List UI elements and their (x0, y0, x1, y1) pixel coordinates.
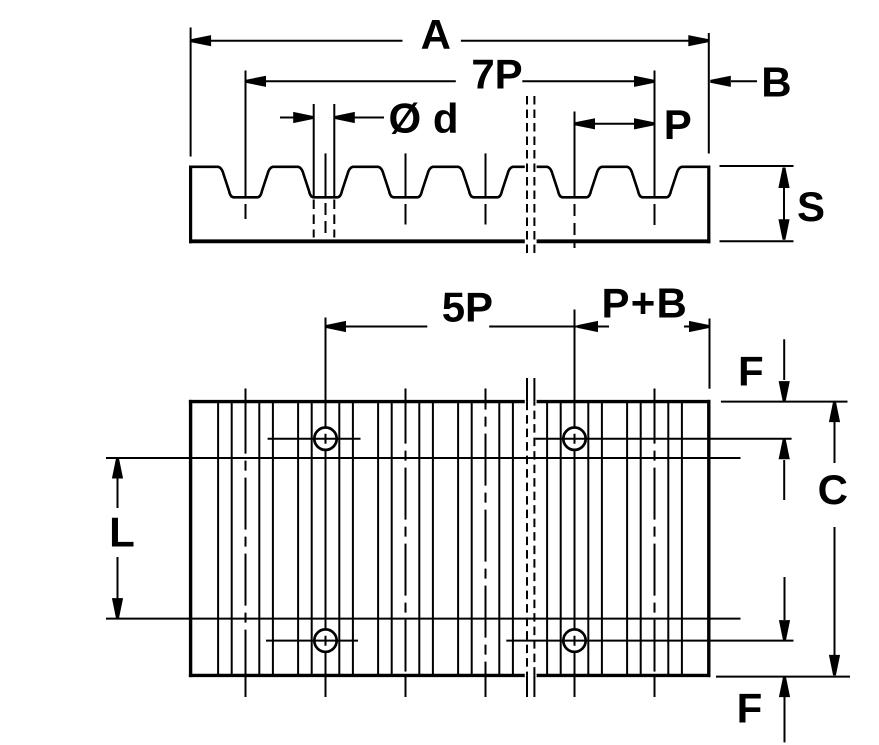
groove lines of tooth 6 (plan) (626, 402, 628, 676)
dimension Od arrows (280, 117, 295, 119)
groove lines of tooth 4 (plan) (457, 402, 459, 676)
dimension A extension line left (190, 28, 192, 157)
tooth profile top outline (right of break) (537, 167, 709, 198)
hole circle top-right (563, 428, 585, 450)
tooth centre line valley 1 / 7P left extension (245, 71, 247, 197)
hole circle bottom-right (563, 629, 585, 651)
dimension S line + arrows (783, 171, 785, 237)
plate bottom edge extension (right) (716, 676, 850, 678)
groove lines of tooth 1 (plan) (217, 402, 219, 676)
hole axis line top-left (268, 438, 361, 440)
tooth centre line valley 4 (485, 153, 487, 196)
plate left edge (profile) (189, 166, 192, 244)
hole circle bottom-left (314, 629, 336, 651)
tooth centre line valley 5 / P left extension (574, 112, 576, 197)
dimension C line + arrows (829, 402, 840, 423)
centre line tooth 4 (plan, dash-dot) (485, 389, 487, 402)
centre line tooth 2 (plan, dash-dot) (325, 318, 327, 402)
groove lines of tooth 2 (plan) (297, 402, 299, 676)
dimension S extension bottom (720, 240, 794, 242)
plate right edge (profile) (707, 166, 710, 244)
dimension P line + arrows (575, 123, 655, 125)
svg-text:P: P (664, 101, 692, 148)
svg-text:5P: 5P (442, 284, 493, 331)
dimension B arrow (731, 80, 757, 82)
svg-text:P+B: P+B (602, 280, 688, 327)
plan view plate left edge (189, 400, 192, 677)
groove lines of tooth 3 (plan) (377, 402, 379, 676)
svg-text:Ø d: Ø d (389, 95, 459, 142)
dimension L line + arrows (112, 458, 123, 479)
P+B right extension (709, 319, 711, 389)
hole axis line bottom-left (266, 640, 358, 642)
centre line tooth 6 (plan, dash-dot) (654, 389, 656, 402)
dimension P+B line + arrows (578, 326, 610, 328)
hidden hole edge left (dashed) + Od extension (313, 104, 315, 197)
plan view plate top edge (189, 400, 525, 403)
svg-text:B: B (761, 58, 791, 105)
dimension A line + arrows (191, 40, 403, 42)
svg-text:A: A (421, 11, 451, 58)
dimension 5P line + arrows (326, 326, 428, 328)
L extension line top (106, 457, 741, 459)
tooth centre line valley 2 (hole axis) (325, 153, 327, 197)
plate base bottom line (left of break) (189, 239, 525, 243)
dimension 7P line + arrows (246, 80, 456, 82)
svg-text:S: S (797, 183, 825, 230)
svg-text:F: F (737, 684, 763, 731)
svg-text:C: C (818, 466, 848, 513)
svg-text:F: F (738, 347, 764, 394)
dimension F top arrows (783, 339, 785, 380)
dimension F bottom arrows (784, 577, 786, 620)
hole axis line top-right (extends to F dimension) (535, 438, 791, 440)
plate base bottom line (right of break) (537, 239, 711, 243)
tooth profile top outline (left of break) (191, 167, 525, 198)
dimension A extension line right (708, 33, 710, 154)
plan view plate right edge (707, 400, 710, 677)
break line 2 (plan) (533, 378, 535, 402)
centre line tooth 5 (plan, dash-dot) (574, 310, 576, 402)
svg-text:L: L (109, 508, 135, 555)
break line 2 (profile, dashed) (533, 96, 535, 257)
svg-text:7P: 7P (471, 50, 522, 97)
hole axis line bottom-right (extends to F dimension) (506, 640, 793, 642)
plate top edge extension (right) (721, 401, 848, 403)
hole circle top-left (314, 428, 336, 450)
break line 1 (plan) (526, 378, 528, 402)
break line 1 (profile, dashed) (526, 96, 528, 257)
groove lines of tooth 5 (plan) (546, 402, 548, 676)
plan view plate bottom edge (189, 674, 525, 677)
dimension S extension top (720, 165, 794, 167)
hidden hole edge right (dashed) + Od extension (333, 104, 335, 197)
centre line tooth 3 (plan, dash-dot) (405, 389, 407, 402)
L extension line bottom (106, 618, 741, 620)
tooth centre line valley 6 / 7P+P right extension (654, 71, 656, 197)
centre line tooth 1 (plan, dash-dot) (245, 389, 247, 402)
tooth centre line valley 3 (405, 153, 407, 196)
